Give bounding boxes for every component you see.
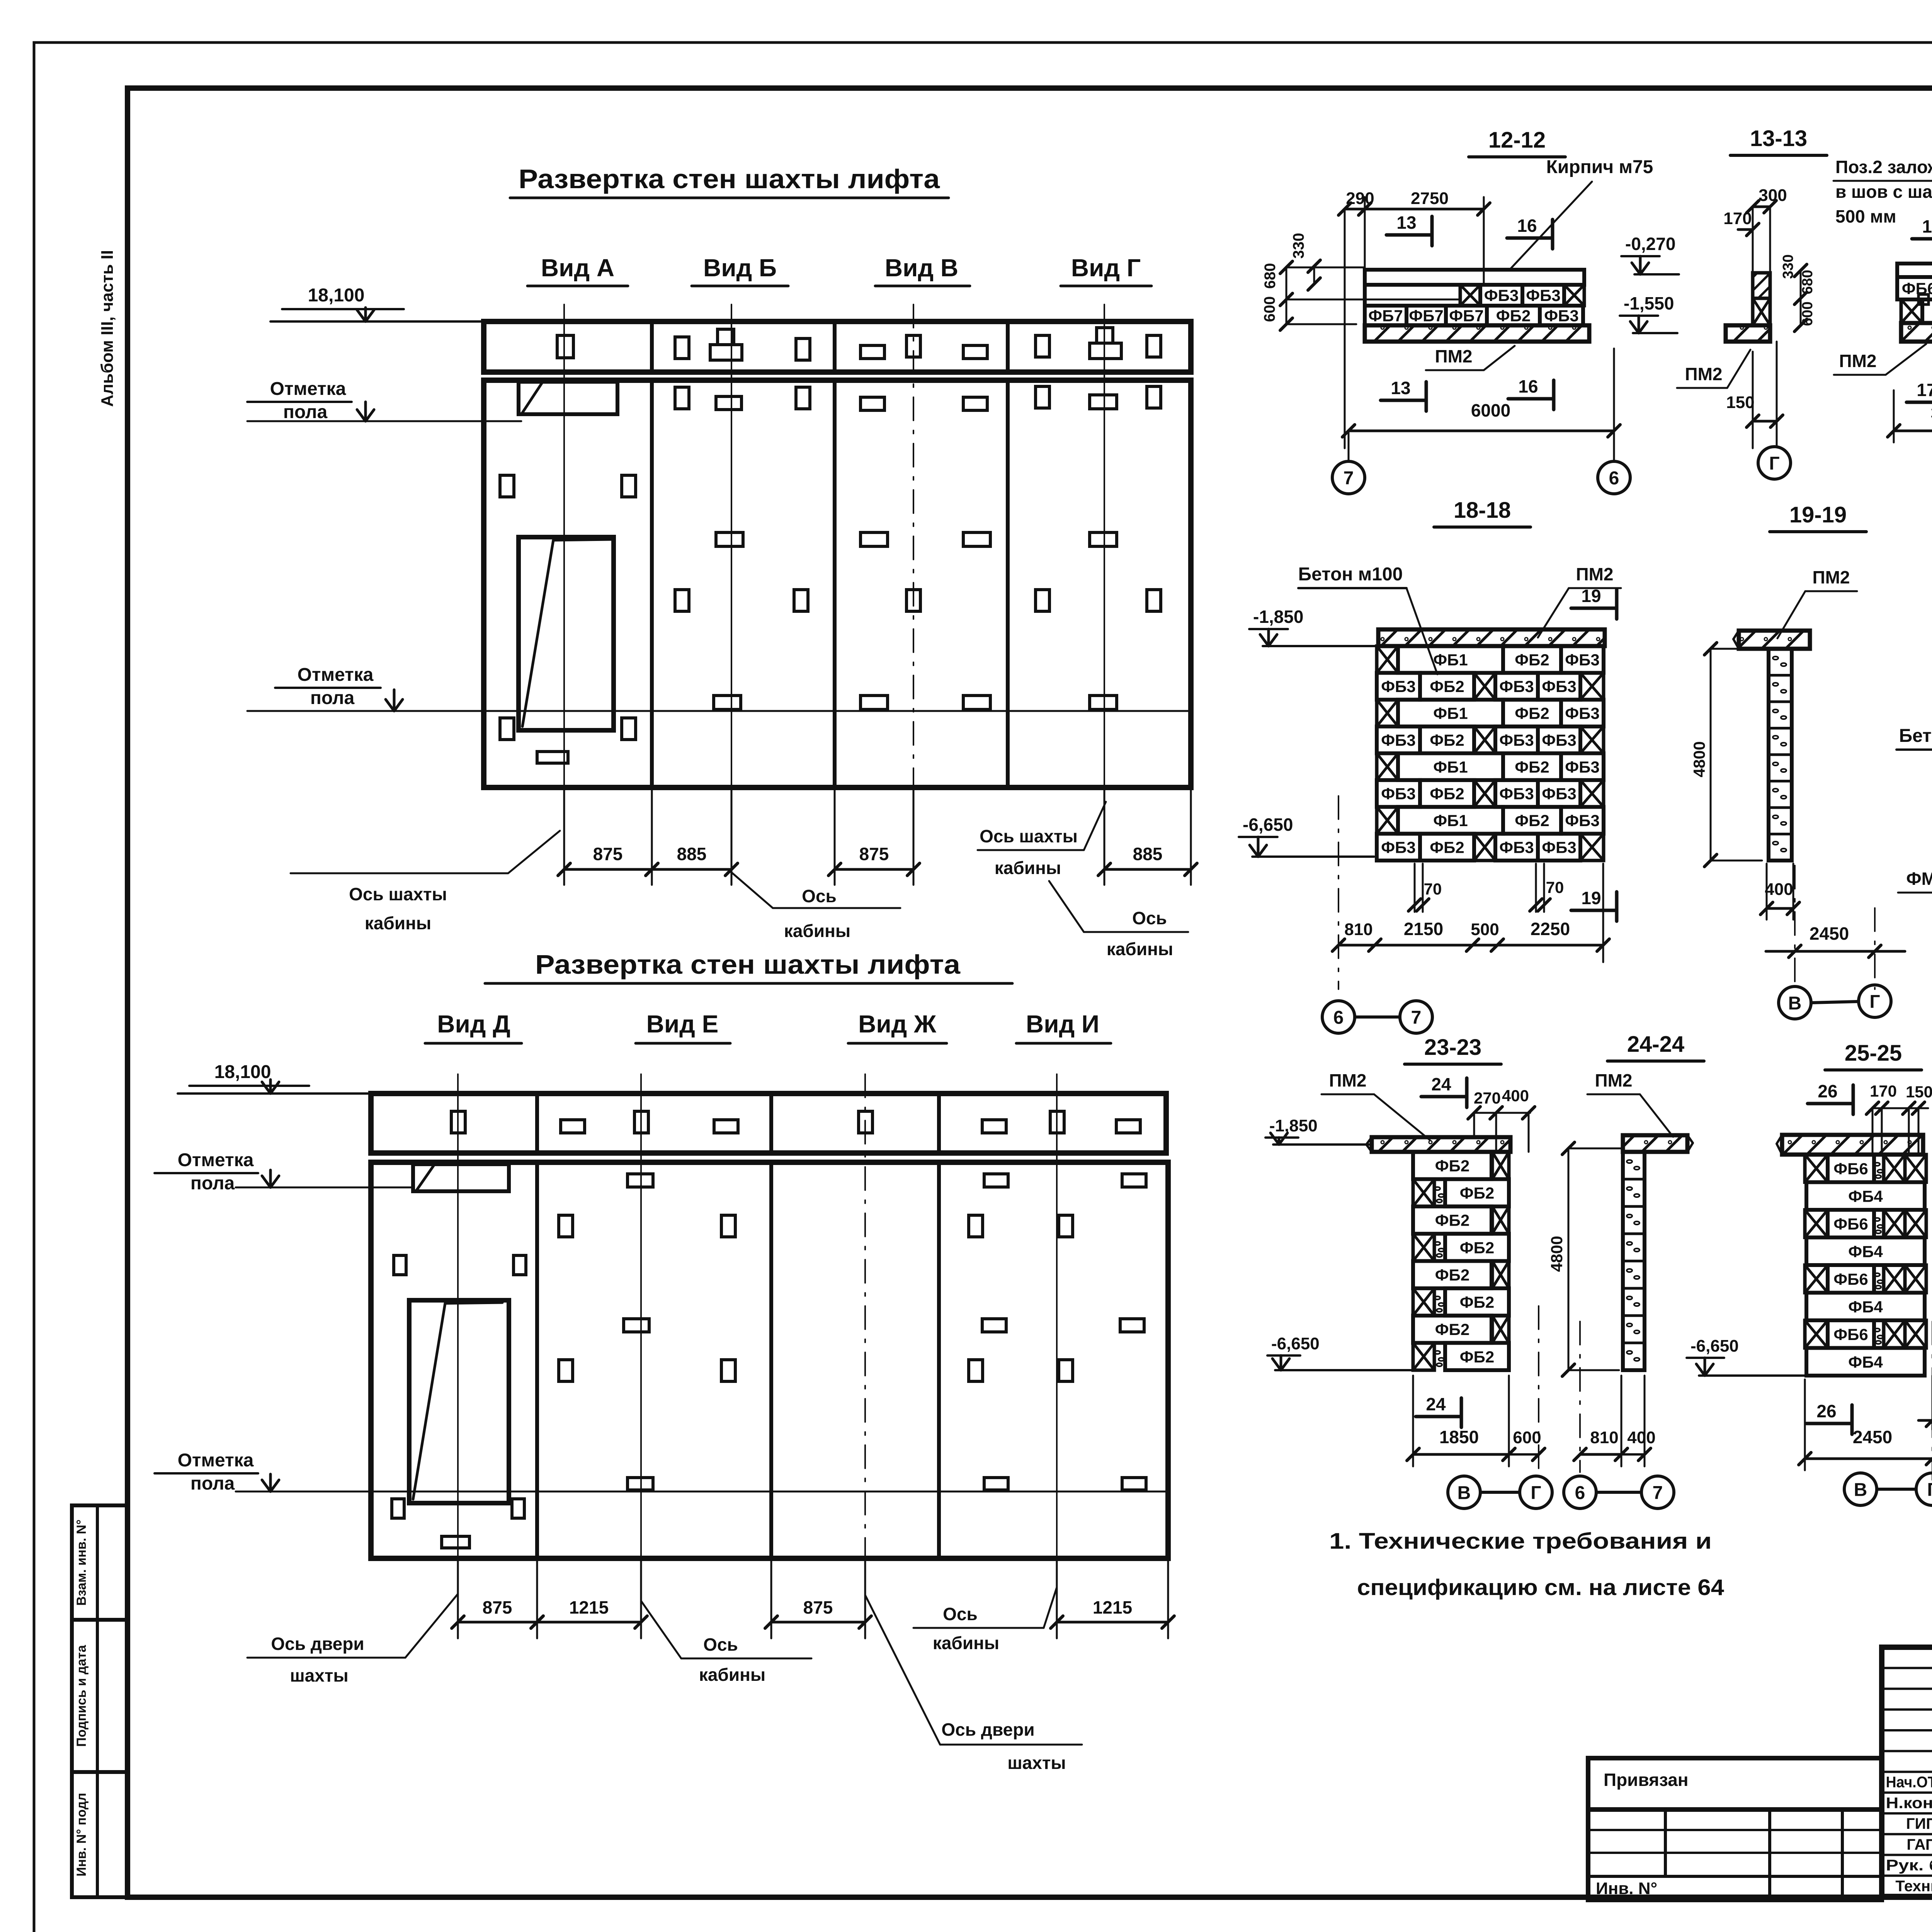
svg-text:ФБ2: ФБ2	[1515, 811, 1549, 830]
svg-text:Подпись и дата: Подпись и дата	[74, 1645, 89, 1747]
svg-text:25-25: 25-25	[1845, 1041, 1902, 1066]
svg-text:2750: 2750	[1411, 189, 1449, 208]
lower band openings E	[561, 1120, 585, 1133]
svg-text:ФБ2: ФБ2	[1435, 1320, 1469, 1338]
svg-text:ГИП: ГИП	[1906, 1815, 1932, 1832]
svg-text:ФБ2: ФБ2	[1430, 677, 1464, 696]
svg-text:19: 19	[1581, 888, 1601, 908]
svg-text:ФБ6: ФБ6	[1833, 1160, 1868, 1178]
svg-text:Отметка: Отметка	[298, 665, 374, 685]
section 23-23 masonry	[1413, 1152, 1492, 1179]
section 14-14 anchor squares	[1918, 294, 1929, 304]
svg-text:17: 17	[1922, 216, 1932, 236]
section 14-14 brick band	[1897, 264, 1932, 277]
band openings view B	[675, 337, 689, 359]
wall row2 openings B	[675, 387, 689, 409]
svg-text:-0,270: -0,270	[1625, 234, 1675, 254]
svg-text:ПМ2: ПМ2	[1839, 351, 1877, 371]
band divider A/B	[650, 321, 654, 372]
svg-text:ФБ6: ФБ6	[1833, 1270, 1868, 1288]
svg-text:ФБ3: ФБ3	[1542, 677, 1576, 696]
svg-text:ФМ9: ФМ9	[1906, 869, 1932, 889]
svg-text:150: 150	[1906, 1083, 1932, 1101]
svg-text:ФБ2: ФБ2	[1435, 1266, 1469, 1284]
title block main frame	[1882, 1647, 1932, 1896]
axis line D	[457, 1074, 459, 1638]
svg-text:ФБ2: ФБ2	[1430, 731, 1464, 749]
svg-text:ГАП: ГАП	[1906, 1836, 1932, 1853]
svg-text:Инв. N°: Инв. N°	[1596, 1879, 1657, 1898]
svg-text:-1,850: -1,850	[1253, 607, 1303, 627]
svg-text:Инв. N° подл: Инв. N° подл	[74, 1793, 89, 1876]
section 12-12 block row upper	[1460, 285, 1480, 306]
svg-text:Н.контр.: Н.контр.	[1886, 1794, 1932, 1811]
svg-text:кабины: кабины	[699, 1665, 765, 1685]
svg-text:ФБ4: ФБ4	[1848, 1353, 1883, 1371]
floor line across upper drawing	[247, 710, 1191, 712]
axis circles 25-25	[1932, 1321, 1932, 1480]
svg-text:150: 150	[1726, 393, 1754, 412]
svg-text:7: 7	[1411, 1007, 1422, 1028]
svg-text:500: 500	[1471, 920, 1499, 939]
section 12-12 block row lower	[1365, 306, 1406, 325]
below floor flat A	[537, 752, 568, 763]
svg-text:18,100: 18,100	[308, 285, 365, 306]
svg-text:ФБ6: ФБ6	[1833, 1325, 1868, 1344]
svg-text:-6,650: -6,650	[1690, 1337, 1739, 1355]
svg-text:Вид Г: Вид Г	[1071, 254, 1141, 282]
svg-text:ПМ2: ПМ2	[1329, 1070, 1367, 1090]
svg-text:ФБ3: ФБ3	[1381, 731, 1415, 749]
margin stamp table	[72, 1505, 127, 1897]
svg-text:ФБ4: ФБ4	[1848, 1187, 1883, 1205]
svg-text:Вид Ж: Вид Ж	[858, 1010, 937, 1038]
band openings view G	[1036, 335, 1049, 357]
svg-text:1215: 1215	[569, 1597, 609, 1617]
axis line Zh	[864, 1074, 866, 1638]
svg-text:70: 70	[1424, 880, 1442, 898]
svg-text:спецификацию см. на листе 64: спецификацию см. на листе 64	[1357, 1575, 1724, 1600]
grid circle 7	[1348, 431, 1350, 460]
svg-text:Ось: Ось	[1132, 908, 1167, 928]
svg-text:Вид Д: Вид Д	[437, 1010, 510, 1038]
svg-text:ФБ3: ФБ3	[1542, 838, 1576, 856]
section 14-14 row1	[1897, 277, 1932, 299]
lower band openings I	[982, 1120, 1006, 1133]
lower band openings Zh	[859, 1111, 872, 1133]
svg-text:12-12: 12-12	[1488, 128, 1546, 153]
wall row2 openings G	[1036, 386, 1049, 408]
axis line view G	[1104, 304, 1105, 869]
axis line view B	[731, 304, 732, 869]
svg-text:Ось: Ось	[802, 886, 837, 906]
svg-text:810: 810	[1590, 1428, 1618, 1447]
svg-text:ФБ2: ФБ2	[1460, 1348, 1494, 1366]
lower flats at floor	[628, 1478, 653, 1490]
svg-text:400: 400	[1765, 880, 1793, 899]
door opening view D	[409, 1300, 509, 1503]
section 19-19 column	[1769, 649, 1792, 861]
svg-text:ФБ1: ФБ1	[1433, 651, 1468, 669]
svg-text:кабины: кабины	[995, 858, 1061, 878]
section 24-24 column	[1623, 1152, 1645, 1370]
svg-text:ПМ2: ПМ2	[1435, 346, 1473, 366]
svg-text:ФБ2: ФБ2	[1430, 838, 1464, 856]
svg-text:875: 875	[483, 1597, 512, 1617]
svg-text:Г: Г	[1927, 1480, 1932, 1500]
svg-text:ФБ2: ФБ2	[1515, 651, 1549, 669]
svg-text:Ось шахты: Ось шахты	[349, 884, 447, 904]
svg-text:600: 600	[1261, 296, 1278, 322]
svg-text:пола: пола	[190, 1473, 235, 1494]
axis line E	[640, 1074, 642, 1638]
band openings view V	[861, 345, 884, 359]
svg-text:16: 16	[1518, 376, 1538, 396]
svg-text:875: 875	[859, 844, 889, 864]
svg-text:-6,650: -6,650	[1271, 1334, 1320, 1353]
door opening view A	[519, 537, 614, 730]
svg-text:-6,650: -6,650	[1243, 815, 1293, 835]
svg-text:26: 26	[1816, 1401, 1836, 1421]
svg-text:70: 70	[1546, 878, 1564, 896]
svg-text:Развертка стен шахты лифта: Развертка стен шахты лифта	[535, 949, 961, 980]
svg-text:Отметка: Отметка	[178, 1450, 254, 1471]
svg-text:810: 810	[1344, 920, 1372, 939]
svg-text:Вид И: Вид И	[1026, 1010, 1099, 1038]
wall divider Zh/I	[937, 1162, 941, 1558]
svg-text:ФБ1: ФБ1	[1433, 811, 1468, 830]
svg-text:400: 400	[1502, 1087, 1529, 1105]
svg-text:Вид В: Вид В	[885, 254, 958, 282]
svg-text:ФБ2: ФБ2	[1460, 1184, 1494, 1202]
svg-text:4800: 4800	[1690, 741, 1708, 777]
svg-text:В: В	[1788, 993, 1802, 1014]
section 13-13 slab	[1726, 325, 1770, 342]
svg-text:875: 875	[803, 1597, 833, 1617]
svg-text:ФБ3: ФБ3	[1542, 731, 1576, 749]
left attachment table	[1588, 1810, 1882, 1900]
wall mid openings row A	[500, 475, 514, 497]
grid circle 6	[1598, 461, 1630, 494]
section 13-13 wall column	[1753, 273, 1770, 298]
section 12-12 brick band	[1365, 270, 1584, 285]
svg-text:Ось двери: Ось двери	[941, 1719, 1034, 1740]
svg-text:Бетон м100: Бетон м100	[1899, 726, 1932, 746]
svg-text:ФБ4: ФБ4	[1848, 1298, 1883, 1316]
svg-text:24: 24	[1431, 1074, 1451, 1094]
svg-text:ФБ2: ФБ2	[1460, 1238, 1494, 1257]
svg-text:-1,850: -1,850	[1269, 1116, 1318, 1135]
svg-text:Ось двери: Ось двери	[271, 1634, 364, 1654]
section 14-14 row2	[1901, 299, 1922, 323]
below floor squares D	[392, 1499, 404, 1518]
band divider D/E	[535, 1094, 539, 1153]
svg-text:6000: 6000	[1471, 400, 1510, 420]
svg-text:кабины: кабины	[1107, 939, 1173, 959]
svg-text:270: 270	[1474, 1089, 1501, 1107]
band openings view A	[557, 335, 573, 358]
svg-text:Ось шахты: Ось шахты	[980, 826, 1078, 846]
svg-text:2450: 2450	[1810, 923, 1849, 944]
svg-text:кабины: кабины	[784, 921, 850, 941]
svg-text:Развертка стен шахты лифта: Развертка стен шахты лифта	[519, 164, 940, 194]
svg-text:ФБ3: ФБ3	[1544, 307, 1578, 325]
axis line view A	[563, 304, 565, 869]
band divider B/V	[833, 321, 837, 372]
svg-text:1. Технические требования и: 1. Технические требования и	[1329, 1529, 1712, 1554]
svg-text:ПМ2: ПМ2	[1813, 567, 1850, 587]
svg-text:13-13: 13-13	[1750, 126, 1807, 151]
grid circles V G 19-19	[1779, 986, 1811, 1019]
svg-text:ФБ3: ФБ3	[1565, 704, 1599, 723]
svg-text:пола: пола	[283, 402, 328, 422]
svg-text:1215: 1215	[1093, 1597, 1132, 1617]
svg-text:ФБ3: ФБ3	[1499, 677, 1534, 696]
svg-text:ФБ3: ФБ3	[1565, 651, 1599, 669]
svg-text:Г: Г	[1531, 1483, 1541, 1503]
wall divider A/B	[650, 380, 654, 787]
svg-text:17: 17	[1917, 380, 1932, 400]
below floor squares A	[500, 718, 514, 740]
svg-text:24-24: 24-24	[1627, 1032, 1684, 1057]
wall row2 openings V	[861, 397, 884, 410]
wall lower flat openings	[716, 532, 743, 546]
band divider V/G	[1006, 321, 1010, 372]
lower mid squares 2	[559, 1360, 573, 1381]
svg-text:18-18: 18-18	[1454, 498, 1511, 523]
svg-text:Поз.2 заложить: Поз.2 заложить	[1835, 157, 1932, 177]
svg-text:4800: 4800	[1548, 1236, 1566, 1272]
svg-text:Взам. инв. N°: Взам. инв. N°	[74, 1519, 89, 1605]
svg-text:Отметка: Отметка	[178, 1150, 254, 1170]
svg-text:ПМ2: ПМ2	[1576, 564, 1614, 584]
upper drawing dimension line	[563, 787, 565, 885]
svg-text:Г: Г	[1769, 453, 1779, 474]
svg-text:Ось: Ось	[943, 1604, 978, 1624]
svg-text:В: В	[1854, 1480, 1867, 1500]
floor line across lower drawing	[236, 1491, 1168, 1493]
svg-text:кабины: кабины	[933, 1633, 999, 1653]
svg-text:Вид Е: Вид Е	[646, 1010, 719, 1038]
section 18-18 masonry	[1377, 646, 1398, 673]
svg-text:330: 330	[1290, 233, 1307, 259]
wall lower square openings	[675, 590, 689, 611]
svg-text:ФБ3: ФБ3	[1381, 838, 1415, 856]
svg-text:13: 13	[1391, 378, 1410, 398]
svg-text:ФБ3: ФБ3	[1499, 731, 1534, 749]
axis circles 24-24	[1579, 1321, 1581, 1472]
svg-text:7: 7	[1653, 1483, 1663, 1503]
svg-text:ФБ7: ФБ7	[1368, 307, 1403, 325]
svg-text:Ось: Ось	[703, 1634, 738, 1655]
svg-text:400: 400	[1627, 1428, 1655, 1447]
svg-text:в шов с шагом: в шов с шагом	[1835, 182, 1932, 202]
svg-text:пола: пола	[310, 688, 355, 708]
svg-text:1850: 1850	[1439, 1427, 1479, 1447]
svg-text:16: 16	[1517, 216, 1537, 236]
section 19-19 slab	[1739, 631, 1810, 649]
svg-text:Нач.ОТЭП: Нач.ОТЭП	[1886, 1774, 1932, 1791]
flats at floor line upper	[714, 696, 741, 709]
svg-text:Отметка: Отметка	[270, 379, 346, 399]
svg-text:ФБ4: ФБ4	[1848, 1242, 1883, 1260]
svg-text:ФБ1: ФБ1	[1433, 758, 1468, 776]
lower wall door head D	[413, 1164, 509, 1191]
svg-text:680: 680	[1799, 270, 1816, 294]
svg-text:ФБ3: ФБ3	[1542, 785, 1576, 803]
svg-text:ФБ3: ФБ3	[1499, 785, 1534, 803]
grid circle G 13-13	[1776, 342, 1778, 445]
band divider Zh/I	[937, 1094, 941, 1153]
svg-text:24: 24	[1426, 1394, 1446, 1414]
axis line view V	[913, 304, 914, 869]
svg-text:ФБ2: ФБ2	[1460, 1293, 1494, 1311]
svg-text:2250: 2250	[1531, 919, 1570, 939]
lower drawing dimension line	[457, 1558, 459, 1638]
section 14-14 slab	[1901, 323, 1932, 342]
svg-text:шахты: шахты	[290, 1665, 348, 1685]
section 25-25 masonry	[1805, 1155, 1828, 1182]
svg-text:ФБ2: ФБ2	[1496, 307, 1531, 325]
svg-text:-1,550: -1,550	[1624, 293, 1674, 313]
svg-text:Техник: Техник	[1895, 1878, 1932, 1895]
svg-text:2150: 2150	[1404, 919, 1443, 939]
svg-text:ФБ2: ФБ2	[1515, 758, 1549, 776]
svg-text:Кирпич м75: Кирпич м75	[1546, 157, 1653, 177]
svg-text:шахты: шахты	[1007, 1753, 1066, 1773]
svg-text:ФБ1: ФБ1	[1433, 704, 1468, 723]
svg-text:ФБ2: ФБ2	[1435, 1211, 1469, 1230]
svg-text:23-23: 23-23	[1424, 1035, 1481, 1060]
svg-text:Альбом III, часть II: Альбом III, часть II	[98, 250, 117, 407]
wall divider D/E	[535, 1162, 539, 1558]
svg-text:600: 600	[1513, 1428, 1541, 1447]
lower drawing wall body	[371, 1162, 1168, 1558]
svg-text:500 мм: 500 мм	[1835, 206, 1896, 226]
axis line I	[1056, 1074, 1058, 1638]
svg-text:13: 13	[1396, 213, 1416, 233]
svg-text:19: 19	[1581, 586, 1601, 606]
svg-text:ФБ2: ФБ2	[1515, 704, 1549, 723]
svg-text:6: 6	[1609, 468, 1619, 488]
below floor flat D	[442, 1536, 469, 1548]
lower drawing top band	[371, 1094, 1166, 1153]
section 18-18 slab	[1378, 629, 1605, 646]
lower row2 flats	[628, 1174, 653, 1187]
svg-text:ФБ2: ФБ2	[1435, 1156, 1469, 1175]
svg-text:ФБ6: ФБ6	[1833, 1215, 1868, 1233]
svg-text:ПМ2: ПМ2	[1595, 1070, 1633, 1090]
svg-text:ФБ7: ФБ7	[1409, 307, 1443, 325]
svg-text:6: 6	[1575, 1483, 1585, 1503]
svg-text:885: 885	[677, 844, 707, 864]
axis circles 23-23	[1538, 1306, 1539, 1472]
svg-text:7: 7	[1344, 468, 1354, 488]
svg-text:26: 26	[1818, 1081, 1837, 1101]
svg-text:6: 6	[1333, 1007, 1344, 1028]
svg-text:ФБ3: ФБ3	[1381, 677, 1415, 696]
svg-text:875: 875	[593, 844, 623, 864]
lower second flats row	[624, 1319, 649, 1332]
lower mid squares	[559, 1215, 573, 1237]
wall divider B/V	[833, 380, 837, 787]
svg-text:пола: пола	[190, 1173, 235, 1194]
svg-text:ФБ3: ФБ3	[1565, 811, 1599, 830]
svg-text:19-19: 19-19	[1789, 502, 1847, 527]
svg-text:ФБ3: ФБ3	[1565, 758, 1599, 776]
svg-text:ФБ3: ФБ3	[1381, 785, 1415, 803]
svg-text:Вид Б: Вид Б	[703, 254, 777, 282]
left attachment box privyazan	[1588, 1758, 1882, 1810]
svg-text:ФБ3: ФБ3	[1484, 286, 1519, 304]
svg-text:кабины: кабины	[365, 913, 431, 933]
svg-text:В: В	[1458, 1483, 1471, 1503]
svg-text:680: 680	[1262, 263, 1279, 289]
svg-text:ФБ3: ФБ3	[1526, 286, 1560, 304]
svg-text:2450: 2450	[1853, 1427, 1892, 1447]
svg-text:Бетон м100: Бетон м100	[1298, 564, 1403, 585]
svg-text:18,100: 18,100	[214, 1062, 271, 1082]
grid circles 6 7 18-18	[1322, 1001, 1355, 1033]
svg-text:ФБ7: ФБ7	[1449, 307, 1483, 325]
svg-text:Рук. бр.: Рук. бр.	[1886, 1857, 1932, 1874]
svg-text:Г: Г	[1869, 992, 1880, 1012]
svg-text:885: 885	[1133, 844, 1163, 864]
lower D side squares	[394, 1255, 406, 1275]
lower band openings D	[451, 1111, 465, 1133]
section 12-12 slab PM2	[1365, 325, 1589, 342]
band divider E/Zh	[769, 1094, 773, 1153]
upper drawing top band (pit walls above)	[484, 321, 1191, 372]
svg-text:170: 170	[1870, 1082, 1897, 1100]
section 23-23 slab	[1372, 1137, 1510, 1152]
wall divider E/Zh	[769, 1162, 773, 1558]
svg-text:ФБ3: ФБ3	[1499, 838, 1534, 856]
svg-text:ПМ2: ПМ2	[1685, 364, 1723, 384]
wall second row openings A door head	[519, 382, 617, 414]
svg-text:ФБ2: ФБ2	[1430, 785, 1464, 803]
upper drawing wall body	[484, 380, 1191, 787]
wall divider V/G	[1006, 380, 1010, 787]
svg-text:Вид А: Вид А	[541, 254, 614, 282]
svg-text:Привязан: Привязан	[1604, 1770, 1689, 1790]
section 24-24 slab	[1623, 1135, 1687, 1152]
section 25-25 slab	[1782, 1135, 1923, 1155]
